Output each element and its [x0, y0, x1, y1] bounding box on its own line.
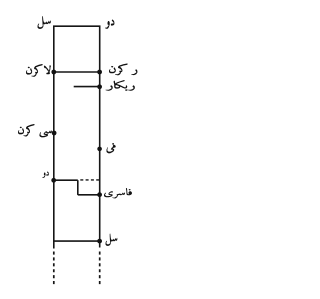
label: LA KRN (left rung)	[26, 64, 51, 77]
node: SL on right rail / bottom bus	[97, 239, 102, 244]
label: FASRI (right step)	[104, 188, 132, 198]
label: DO (left lower)	[42, 172, 49, 178]
node: left rail / rung junction	[51, 70, 56, 75]
wire: dashed link DO to right rail	[80, 179, 99, 181]
label: R KRN (right rung)	[109, 64, 137, 76]
node: right rail / RBKAR stub	[97, 84, 102, 89]
label: dot above MI	[112, 143, 114, 145]
wire: left rail (solid)	[53, 26, 55, 249]
wire: RBKAR stub	[74, 86, 100, 88]
wire: left rail dashed continuation	[53, 252, 55, 287]
node: DO on left rail	[51, 178, 56, 183]
wire: top bus	[53, 25, 100, 27]
label: SL (top left)	[38, 16, 51, 29]
wire: FASRI horizontal	[78, 194, 100, 196]
node: FASRI on right rail	[97, 192, 102, 197]
label: SL (bottom right)	[106, 234, 118, 246]
wire: step vertical	[77, 180, 79, 195]
node: MI on right rail	[97, 147, 102, 152]
wire: rung LA-KRN / R-KRN	[54, 71, 100, 73]
node: SI-KRN on left rail	[52, 131, 57, 136]
wire: bottom bus SL	[53, 240, 100, 242]
label: RBKAR (right stub)	[106, 80, 135, 91]
wire: DO horizontal	[54, 179, 78, 181]
node: right rail / rung junction	[97, 70, 102, 75]
label: DO (top right)	[105, 20, 114, 29]
label: SI KRN (left middle)	[18, 124, 52, 137]
label: MI (right middle)	[107, 145, 116, 154]
wire: right rail (solid)	[99, 26, 101, 248]
wire: right rail dashed continuation	[99, 252, 101, 287]
